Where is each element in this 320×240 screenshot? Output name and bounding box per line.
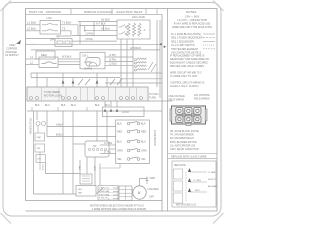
wire into LS2 upper <box>26 58 40 60</box>
legend row 3 <box>171 40 215 43</box>
TR feed wire <box>73 143 85 145</box>
stage2 ladder wire 2 <box>105 60 134 62</box>
svg-text:(1 PH): (1 PH) <box>84 60 92 64</box>
SEQ1 inner bar 2 <box>65 41 70 44</box>
TR right wire <box>109 148 116 150</box>
svg-text:4 WIRE MOTORS ARE CONNECTED A: 4 WIRE MOTORS ARE CONNECTED AS SHOWN <box>92 208 146 211</box>
rail tick 2 <box>57 107 59 111</box>
svg-text:TR: TR <box>93 144 97 148</box>
hookup arrow 1 <box>188 168 191 172</box>
SEQ1 feed stub <box>57 36 59 39</box>
LS1 contact lower <box>42 30 58 31</box>
LS1 contact upper <box>42 24 58 25</box>
wire strip to right column <box>148 100 172 102</box>
left cluster drop 1 <box>37 126 39 134</box>
wire C into fuse block <box>100 144 116 146</box>
svg-text:(3 PH): (3 PH) <box>109 58 116 61</box>
L1 drop <box>104 101 106 107</box>
speed legend table <box>98 186 118 201</box>
legend row 2 <box>171 37 215 40</box>
main area right edge <box>161 14 163 211</box>
corner tick bottom-right <box>213 213 224 224</box>
rail tick 3 <box>86 107 88 111</box>
left cluster box FM <box>35 144 45 152</box>
svg-text:FM: FM <box>37 148 40 150</box>
nested corner L2 <box>34 111 77 194</box>
svg-text:B BLU: B BLU <box>56 133 64 137</box>
svg-text:SEQ 2 SEQUENCER: SEQ 2 SEQUENCER <box>171 40 194 43</box>
svg-text:C GRN: C GRN <box>104 142 112 145</box>
plug leads <box>113 188 119 199</box>
LS2 contact <box>42 62 57 64</box>
transformer TR box <box>85 141 109 157</box>
svg-text:SEE NOTE: SEE NOTE <box>174 165 186 167</box>
CB inner notch <box>89 63 97 67</box>
hookup wire 1 <box>190 171 208 173</box>
heater stage2 coil 4 <box>137 69 147 71</box>
svg-text:BLU: BLU <box>105 104 110 107</box>
arrowhead on feeder 1 <box>62 80 65 84</box>
mid vertical wire x73 <box>72 111 74 194</box>
label 24V CONTROL WIRING <box>194 95 211 100</box>
L2 drop <box>110 101 112 107</box>
left cluster box CAP <box>35 133 45 141</box>
corner tick top-left <box>1 1 12 12</box>
heater node circles <box>125 26 127 28</box>
fuse row 2 <box>117 130 146 134</box>
svg-text:CU WIRE ONLY TO UNIT: CU WIRE ONLY TO UNIT <box>170 75 198 78</box>
svg-text:GR: GR <box>38 159 42 161</box>
header divider <box>70 9 72 15</box>
wire rail y49.9 <box>31 49 160 51</box>
feeder labels vertical <box>78 166 95 171</box>
wire LS2 out <box>58 58 80 60</box>
ladder wire y21.5 <box>78 21 117 23</box>
plug grid dividers <box>119 186 132 201</box>
stage2 slash 1 <box>148 62 153 70</box>
svg-text:CM 1: CM 1 <box>82 55 88 58</box>
notes column left edge <box>167 9 169 212</box>
svg-text:SUPPLY: SUPPLY <box>208 179 217 181</box>
mid vertical wire x63 <box>62 111 64 194</box>
svg-text:CLASS 2. N.E.C. CLASS 2: CLASS 2. N.E.C. CLASS 2 <box>170 85 199 88</box>
header divider end <box>156 9 158 15</box>
heater stage2 terminal 4 <box>135 69 137 71</box>
blower motor M <box>133 186 146 199</box>
frame step line <box>26 200 163 202</box>
right rail y78.8 <box>120 78 162 80</box>
svg-text:VOLTAGE: VOLTAGE <box>5 50 17 54</box>
vertical feeder wires to strip <box>36 73 38 87</box>
junction bullet right a <box>160 43 162 45</box>
motor plug grid <box>119 186 132 201</box>
junction dot 1 <box>79 25 80 26</box>
svg-text:24V CONTROL: 24V CONTROL <box>194 95 211 97</box>
hookup vertical link <box>185 172 187 202</box>
motor leads left <box>132 190 134 196</box>
hookup arrow 2 <box>188 178 191 182</box>
junction dot 2 <box>93 25 94 26</box>
heater stage2 coil 3 <box>137 65 147 67</box>
wire into LS2 lower <box>26 64 40 66</box>
fuse row 4 <box>117 149 147 153</box>
heater stage2 coil 2 <box>137 62 147 64</box>
wire L2 into LS1 <box>26 30 41 32</box>
heater bottom drops <box>120 39 122 87</box>
svg-text:LT GRN: LT GRN <box>193 180 201 182</box>
block cell r2c1 <box>176 116 183 123</box>
disconnect slash 2 <box>85 79 90 85</box>
ladder vertical x94 <box>93 22 95 36</box>
svg-text:BLU: BLU <box>45 104 50 107</box>
speed legend rows <box>99 188 110 200</box>
heater element 3 <box>138 23 141 37</box>
circuit breaker CB box <box>80 52 105 69</box>
left cluster tiny labels <box>37 136 42 161</box>
ladder vertical x103.5 <box>103 25 105 30</box>
nested corner L3 <box>46 163 81 174</box>
svg-text:BLU: BLU <box>141 141 146 144</box>
svg-text:LINE VOLTAGE: LINE VOLTAGE <box>169 95 186 98</box>
lower rail y111 <box>27 110 162 112</box>
ladder vertical x84.8 <box>84 25 86 30</box>
diagonal link wire <box>96 188 103 194</box>
fuse row 5 <box>117 157 146 161</box>
CB inner element <box>86 58 100 67</box>
svg-text:FB | FUSE BLOCK (NOTE): FB | FUSE BLOCK (NOTE) <box>170 130 199 133</box>
wire B BLU <box>47 136 116 138</box>
svg-text:(3 PH): (3 PH) <box>84 67 92 71</box>
svg-text:MOTOR LOAD: MOTOR LOAD <box>44 93 62 97</box>
arrowhead on feeder 2 <box>72 80 75 84</box>
heater element 2 <box>133 23 136 37</box>
junction bullet right b <box>164 46 166 48</box>
heater left contact a <box>119 25 126 28</box>
svg-text:LS1: LS1 <box>47 16 53 20</box>
left cluster circle 2 <box>42 122 46 126</box>
arrowhead L3 <box>116 109 119 112</box>
rail tick 1 <box>31 107 33 111</box>
short rail y77.5 <box>31 77 120 79</box>
corner tick top-right <box>213 1 224 12</box>
speed tap box <box>76 186 96 197</box>
svg-text:AIR GROUND LUG: AIR GROUND LUG <box>176 204 196 207</box>
svg-text:BLK: BLK <box>117 123 122 126</box>
svg-text:SEQ: SEQ <box>41 53 48 57</box>
svg-text:TR | TRANSFORMER: TR | TRANSFORMER <box>170 134 194 137</box>
svg-text:CAP | EQUIP CAPACITOR: CAP | EQUIP CAPACITOR <box>170 148 199 151</box>
svg-text:HTR HEATER ELEMENT: HTR HEATER ELEMENT <box>171 48 199 51</box>
svg-text:A: A <box>144 28 146 32</box>
ladder wire y30.7 <box>85 30 117 32</box>
svg-text:USE: USE <box>9 43 15 47</box>
replacement wire title strip <box>168 153 217 155</box>
lead labels <box>108 188 110 201</box>
legend row 5 <box>171 48 215 51</box>
control circuit text <box>170 82 205 89</box>
svg-text:(1 PH): (1 PH) <box>86 32 94 36</box>
ground symbol <box>146 177 149 184</box>
heater stage2 terminal 2 <box>135 62 137 64</box>
limit switch LS2 box <box>39 57 58 68</box>
long rail y73 <box>31 72 162 74</box>
svg-text:FIELD WIRING: FIELD WIRING <box>29 118 32 134</box>
mid vertical wire x97 <box>96 111 98 141</box>
wire LS1 out upper <box>61 24 79 26</box>
svg-text:TO FAN: TO FAN <box>149 92 158 96</box>
stage2 ladder wire 3 <box>105 65 134 67</box>
limit switch LS1 box <box>40 21 61 35</box>
left cluster box GRD <box>36 155 46 163</box>
wire LS1 out lower <box>61 30 72 32</box>
arrowhead L1 <box>104 109 107 112</box>
sequencer SEQ2 box <box>36 51 55 59</box>
svg-text:LF 500VA: LF 500VA <box>130 47 141 50</box>
feeder link from fuse block <box>100 164 120 169</box>
legend row 6 <box>171 52 201 55</box>
svg-text:BLU: BLU <box>71 104 76 107</box>
svg-text:(1 PH): (1 PH) <box>109 54 116 57</box>
mid vertical wire x47 <box>46 111 48 137</box>
svg-text:D YEL: D YEL <box>104 151 112 154</box>
svg-text:GRN: GRN <box>141 150 147 153</box>
svg-text:BLK: BLK <box>35 104 40 107</box>
svg-text:CAP: CAP <box>37 136 42 139</box>
legend row 4 <box>171 44 215 47</box>
fuse row 3 <box>117 140 146 144</box>
ladder vertical x80 <box>79 22 81 45</box>
svg-text:BLK: BLK <box>141 123 146 126</box>
terminal block bottom tab <box>186 124 191 126</box>
terminal block left tab <box>170 109 172 121</box>
heater box HTR <box>117 20 150 39</box>
svg-text:BLU: BLU <box>117 141 122 144</box>
arrowhead on feeder 3 <box>96 80 99 84</box>
svg-text:IN SUPPLY: IN SUPPLY <box>6 53 20 57</box>
svg-text:SEQ 1 FUSED SEQUENCER: SEQ 1 FUSED SEQUENCER <box>171 37 203 40</box>
svg-text:LS | ANTICIPATOR 230: LS | ANTICIPATOR 230 <box>170 144 196 147</box>
svg-text:BLK: BLK <box>61 104 66 107</box>
hookup wire 3 <box>190 191 208 193</box>
svg-text:24V LOAD: 24V LOAD <box>132 15 145 19</box>
mid vertical wire x37 <box>36 111 38 120</box>
rail tick left <box>30 73 32 78</box>
wire D into fuse block <box>100 153 116 155</box>
arrowhead L2 <box>110 109 113 112</box>
block cell r1c2 <box>185 108 192 115</box>
disconnect slash 1 <box>78 79 83 85</box>
fuse block box FB <box>116 120 150 164</box>
field feed arrow <box>15 42 19 46</box>
svg-text:L1 L2: L1 L2 <box>41 164 44 171</box>
left cluster drop 2 <box>39 152 41 170</box>
svg-text:W1 BLK: W1 BLK <box>62 55 72 59</box>
svg-text:FUSE: FUSE <box>149 95 156 99</box>
legend row dividers <box>98 189 118 196</box>
heater stage2 coil 1 <box>137 58 147 60</box>
wire L1 into LS1 <box>26 24 41 26</box>
heater left contact b <box>119 32 126 35</box>
SEQ1 inner bar <box>57 41 63 44</box>
disconnect slash 3 <box>110 79 115 85</box>
hookup right text <box>208 171 217 188</box>
svg-text:L1 BLK: L1 BLK <box>27 21 36 25</box>
ladder wire y25.4 <box>80 24 117 26</box>
svg-text:FIELD WIRING: FIELD WIRING <box>194 98 210 100</box>
svg-text:GRD: GRD <box>150 177 156 180</box>
TB1 terminals <box>30 97 143 100</box>
svg-text:FIELD WIRING: FIELD WIRING <box>169 99 185 101</box>
left cluster circle 1 <box>36 122 40 126</box>
wire LS2 out mid <box>58 61 80 63</box>
svg-text:H1 BLK: H1 BLK <box>101 17 110 21</box>
svg-text:(3 PH): (3 PH) <box>86 37 94 41</box>
hookup left boxes <box>174 169 183 179</box>
svg-text:AIR BAR: AIR BAR <box>208 185 217 188</box>
component legend list <box>170 130 199 151</box>
junction dot 3 <box>84 30 85 31</box>
disconnect slash 4 <box>117 79 122 85</box>
svg-text:TAP: TAP <box>78 192 83 195</box>
corner tick bottom-left <box>1 213 12 224</box>
bottom cluster feeders <box>79 160 81 174</box>
hookup wire 2 <box>190 181 208 183</box>
terminal strip TB1 <box>27 87 148 101</box>
stage2 slash 2 <box>151 64 156 72</box>
svg-text:24V: 24V <box>50 38 55 42</box>
capacitor box <box>80 174 92 184</box>
sequencer SEQ1 box <box>55 39 72 47</box>
svg-text:RED: RED <box>195 190 200 192</box>
legend row 1 <box>171 33 215 36</box>
svg-text:H2 BLU: H2 BLU <box>101 27 110 31</box>
svg-text:T2: T2 <box>62 27 66 31</box>
heater stage2 terminal 1 <box>135 59 137 61</box>
svg-text:TO BLOWER: TO BLOWER <box>44 90 60 94</box>
svg-text:4 YEL-HI: 4 YEL-HI <box>99 198 108 200</box>
svg-text:CAP: CAP <box>149 196 154 199</box>
svg-text:RED: RED <box>141 131 146 134</box>
svg-text:T1 BLK: T1 BLK <box>62 21 71 25</box>
svg-text:LT BAR: LT BAR <box>208 171 216 174</box>
right drop pair <box>156 20 158 87</box>
svg-text:YEL: YEL <box>117 158 122 161</box>
stage2 ladder wire 1 <box>105 56 134 58</box>
terminal box L1L2L3 <box>103 107 145 117</box>
block cell r2c2 <box>185 116 192 123</box>
svg-text:LS 1,2 LIMIT SWITCH: LS 1,2 LIMIT SWITCH <box>171 44 195 47</box>
svg-text:BLK: BLK <box>95 104 100 107</box>
svg-text:REPLACE WITH CLASS 2 WIRE: REPLACE WITH CLASS 2 WIRE <box>171 155 207 158</box>
note block USE COPPER CONDUCTORS (left margin) <box>5 43 19 57</box>
hookup sub-box <box>172 161 216 207</box>
title strip bottom <box>168 158 217 160</box>
block cell r2c3 <box>194 116 201 123</box>
wire rail y44.3 <box>36 43 160 45</box>
svg-text:LOW MED: LOW MED <box>148 189 159 191</box>
L3 drop <box>116 101 118 107</box>
feed stub to rail <box>25 43 36 45</box>
svg-text:WIRING DIAGRAM: WIRING DIAGRAM <box>84 10 113 14</box>
label LINE VOLTAGE FIELD WIRING <box>169 95 186 101</box>
hookup arrow 3 <box>188 188 191 192</box>
header rule <box>26 13 163 15</box>
notes paragraph <box>172 16 212 30</box>
vertical drop wire b <box>77 25 79 36</box>
svg-text:BTR | BLOWER MOTOR: BTR | BLOWER MOTOR <box>170 141 197 144</box>
svg-text:RED: RED <box>93 166 95 171</box>
mid vertical wire x107 <box>106 111 108 141</box>
block cell r1c1 <box>176 108 183 115</box>
svg-text:BLK: BLK <box>78 166 80 171</box>
right rail y83 <box>105 82 162 84</box>
svg-text:COPPER: COPPER <box>6 46 17 50</box>
capacitor hatch <box>82 175 90 177</box>
svg-text:GRN: GRN <box>117 150 123 153</box>
wire LS2 out low <box>58 64 80 66</box>
svg-text:NOTES: NOTES <box>186 10 196 14</box>
block screws <box>178 109 199 121</box>
svg-text:A BLK: A BLK <box>56 123 63 127</box>
block cell r1c3 <box>194 108 201 115</box>
svg-text:FUSE BLOCK: FUSE BLOCK <box>153 130 156 146</box>
right paragraph 3 <box>170 72 202 79</box>
right paragraph 2 <box>170 55 209 69</box>
header divider right <box>145 9 147 15</box>
diagram frame <box>26 9 218 212</box>
motor ground wire <box>140 179 148 186</box>
svg-text:ELECTRIC HEAT: ELECTRIC HEAT <box>117 10 143 14</box>
TR inner terminals <box>88 148 106 150</box>
TB1 cell dividers <box>42 87 137 101</box>
heater stage2 terminal 3 <box>135 66 137 68</box>
svg-text:L1 FU: L1 FU <box>122 111 129 114</box>
strip drop labels <box>35 104 110 107</box>
svg-text:YEL: YEL <box>141 158 146 161</box>
svg-text:M: M <box>138 191 141 195</box>
terminal block right tab <box>205 109 207 121</box>
wire A BLK <box>47 126 116 128</box>
svg-text:PER NEC AND LOCAL CODES.: PER NEC AND LOCAL CODES. <box>170 65 205 68</box>
ladder wire y35.6 <box>72 35 117 37</box>
vertical drop wire a <box>56 31 71 36</box>
ladder wire y41.1 <box>72 40 117 42</box>
page border <box>3 3 221 217</box>
svg-text:RED: RED <box>117 131 122 134</box>
heater element 1 <box>127 23 130 37</box>
feed stub into sequencer <box>25 38 55 40</box>
svg-text:RC | BLOWER RELAY: RC | BLOWER RELAY <box>170 137 194 140</box>
svg-text:L2 BLU: L2 BLU <box>109 63 117 66</box>
svg-text:FU 1 FUSE BLOCK (NOTE): FU 1 FUSE BLOCK (NOTE) <box>171 33 201 36</box>
svg-text:PART NO. 1084543D: PART NO. 1084543D <box>29 10 62 14</box>
svg-text:SAME SIZE AND TYPE INSULATION: SAME SIZE AND TYPE INSULATION <box>172 26 212 29</box>
fuse row 1 <box>117 122 146 126</box>
svg-text:A-T BLK: A-T BLK <box>96 21 106 25</box>
terminal block photo outline <box>172 106 206 124</box>
header divider <box>111 9 113 15</box>
svg-text:L2 BLU: L2 BLU <box>27 27 36 31</box>
